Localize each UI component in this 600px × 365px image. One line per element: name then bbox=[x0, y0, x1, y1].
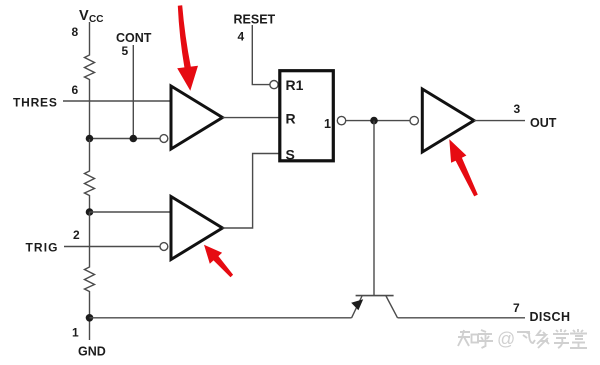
wire THRES to comparator plus input bbox=[63, 100, 171, 102]
op-amp comparator COMP1 bbox=[171, 86, 223, 149]
wire CONT vertical bbox=[132, 45, 134, 139]
svg-text:R1: R1 bbox=[286, 77, 304, 93]
svg-text:8: 8 bbox=[72, 25, 79, 39]
resistor R3 bbox=[85, 265, 95, 293]
svg-text:S: S bbox=[286, 147, 295, 163]
annotation red arrow 1 bbox=[177, 5, 198, 91]
latch U1 box bbox=[280, 71, 334, 161]
svg-text:1: 1 bbox=[72, 326, 79, 340]
wire latch node to transistor base bbox=[373, 121, 375, 295]
bubble comparator 2 inverting input bbox=[160, 243, 168, 251]
wire VCC rail top bbox=[89, 22, 91, 53]
svg-text:TRIG: TRIG bbox=[26, 241, 59, 255]
bubble buffer input bbox=[410, 116, 418, 124]
op-amp comparator COMP2 bbox=[171, 197, 223, 260]
node VCC label bbox=[79, 8, 103, 25]
watermark at-name bbox=[497, 329, 587, 349]
svg-text:CONT: CONT bbox=[116, 31, 152, 45]
svg-text:THRES: THRES bbox=[13, 96, 58, 110]
wire latch output to buffer bbox=[346, 120, 410, 122]
wire rail R3 to GND bbox=[89, 293, 91, 340]
resistor R1 bbox=[85, 53, 95, 81]
junction GND node bbox=[86, 314, 94, 322]
svg-text:3: 3 bbox=[514, 102, 521, 116]
wire node B to comparator 2 plus input bbox=[90, 211, 172, 213]
wire rail node B to R3 bbox=[89, 212, 91, 265]
annotation red arrow 2 bbox=[204, 245, 233, 277]
svg-text:DISCH: DISCH bbox=[530, 310, 571, 324]
wire rail R2 to node B bbox=[89, 197, 91, 212]
svg-text:RESET: RESET bbox=[234, 13, 276, 27]
svg-text:GND: GND bbox=[78, 345, 106, 359]
wire buffer output to OUT bbox=[474, 120, 525, 122]
resistor R2 bbox=[85, 169, 95, 197]
buffer amplifier U2 bbox=[422, 89, 474, 152]
svg-text:1: 1 bbox=[324, 117, 331, 131]
wire rail node A to R2 bbox=[89, 139, 91, 169]
svg-text:@: @ bbox=[497, 329, 515, 349]
junction latch output node bbox=[370, 117, 378, 125]
svg-text:6: 6 bbox=[72, 83, 79, 97]
wire comparator 1 output to latch R bbox=[223, 117, 281, 119]
bubble comparator 1 inverting input bbox=[160, 135, 168, 143]
transistor Q1 emitter bbox=[352, 296, 362, 318]
annotation red arrow 3 bbox=[449, 139, 478, 196]
wire rail R1 to node A bbox=[89, 81, 91, 139]
transistor Q1 collector bbox=[386, 296, 398, 318]
svg-text:R: R bbox=[286, 111, 296, 127]
svg-text:V: V bbox=[79, 8, 89, 24]
junction node A bbox=[86, 135, 94, 143]
transistor Q1 emitter arrow bbox=[351, 299, 363, 310]
svg-text:OUT: OUT bbox=[530, 116, 557, 130]
wire TRIG to comparator 2 minus bbox=[64, 246, 160, 248]
wire node A to comparator minus bbox=[90, 138, 160, 140]
svg-text:2: 2 bbox=[73, 228, 80, 242]
wire GND to emitter bbox=[90, 317, 352, 319]
wire comparator 2 output to latch S bbox=[223, 154, 281, 229]
svg-text:CC: CC bbox=[89, 14, 103, 25]
bubble latch output bbox=[337, 116, 345, 124]
wire collector to DISCH bbox=[398, 317, 526, 319]
junction node B bbox=[86, 208, 94, 216]
svg-text:4: 4 bbox=[238, 30, 245, 44]
wire RESET to latch R1 input bbox=[252, 25, 269, 85]
watermark zhihu bbox=[458, 330, 493, 348]
svg-text:5: 5 bbox=[122, 44, 129, 58]
transistor Q1 base bar bbox=[356, 295, 394, 297]
svg-text:7: 7 bbox=[513, 301, 520, 315]
bubble latch R1 input bbox=[270, 81, 278, 89]
junction CONT node bbox=[130, 135, 138, 143]
